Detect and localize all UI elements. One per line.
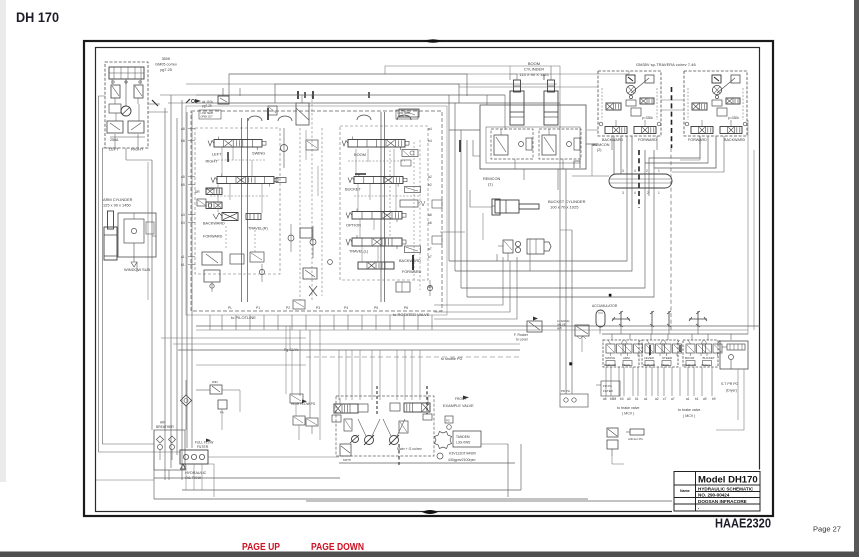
wire pump riser dark	[376, 386, 378, 414]
wire bus 463	[339, 462, 515, 464]
wire right loop	[507, 444, 509, 497]
svg-text:(1): (1)	[488, 182, 493, 187]
wire pa drop	[221, 409, 223, 430]
svg-text:PAGE DOWN: PAGE DOWN	[311, 542, 364, 553]
MCV right sym a	[401, 160, 411, 166]
wire boom box bottom1	[523, 169, 525, 180]
wire motor right drop2	[672, 136, 716, 168]
MCV right row4b	[405, 246, 421, 253]
svg-text:P2: P2	[286, 306, 290, 310]
RCV box 3 (boom/bucket)	[683, 340, 718, 367]
wire pilot to oval	[572, 175, 609, 177]
solenoid valve	[607, 428, 618, 437]
svg-text:PL: PL	[228, 306, 232, 310]
MCV dark tick 4	[459, 140, 461, 152]
svg-text:430gpm/2100rpm: 430gpm/2100rpm	[448, 458, 476, 462]
svg-text:BACKWARD: BACKWARD	[399, 259, 421, 263]
svg-text:P1: P1	[256, 306, 260, 310]
svg-text:REMCON: REMCON	[684, 363, 696, 367]
svg-text:KR75: KR75	[343, 458, 351, 462]
MCV row stubs right2	[357, 184, 359, 211]
svg-text:1: 1	[658, 169, 660, 173]
junction dot 1	[570, 363, 573, 366]
wire oval up 6	[653, 150, 655, 168]
wire boom label line	[586, 143, 596, 145]
wire boom cyl 2	[473, 140, 480, 156]
svg-text:PEDAL: PEDAL	[661, 363, 670, 367]
wire top bus 2	[275, 84, 459, 103]
svg-text:REMCON: REMCON	[643, 363, 655, 367]
svg-text:1: 1	[658, 191, 660, 195]
svg-text:250A: 250A	[110, 138, 119, 142]
svg-text:Name: Name	[680, 489, 690, 493]
port cross 1	[620, 311, 622, 327]
wire bus 344	[173, 343, 520, 345]
wire arm down	[136, 262, 138, 272]
svg-text:b4: b4	[428, 139, 432, 143]
bottom dark bar	[0, 552, 859, 557]
svg-text:to brake valve: to brake valve	[678, 408, 700, 412]
air breather group	[154, 430, 185, 470]
wire swivel corner 2	[434, 261, 510, 312]
wire rcv v3	[571, 230, 573, 394]
svg-text:BACKWARD: BACKWARD	[203, 222, 225, 226]
main pump 2	[390, 436, 399, 445]
svg-text:SWING: SWING	[252, 151, 265, 156]
last guard valve	[630, 429, 644, 435]
MCV center dash v1	[299, 128, 301, 300]
svg-text:a1: a1	[181, 255, 185, 259]
wire bus 334	[602, 333, 748, 335]
wire tank to pump	[208, 456, 339, 458]
wire bus 480	[154, 477, 340, 479]
wire bus 490	[182, 489, 521, 491]
wire oval up 5	[644, 150, 646, 168]
boom box notch	[574, 161, 580, 168]
svg-text:c7: c7	[663, 397, 667, 401]
wire pump risers	[338, 350, 340, 400]
turning joint oval	[609, 174, 672, 188]
wire left bus 5	[181, 100, 183, 480]
MCV right edge sym	[432, 200, 442, 208]
MCV outer boundary	[186, 106, 447, 315]
RCV box 1 (swing/arm)	[603, 340, 639, 367]
wire top bus 5	[239, 88, 241, 96]
svg-text:a7: a7	[671, 397, 675, 401]
wire rcv h1	[560, 229, 572, 231]
wire boom cyl 1	[449, 129, 480, 131]
wire heavy dash lower	[638, 150, 640, 208]
svg-text:WIN: WIN	[212, 380, 218, 384]
wire right motor L2	[645, 136, 708, 163]
kr valve	[340, 444, 351, 456]
wire right motor L4	[672, 136, 724, 172]
wire riser 510	[509, 74, 511, 80]
wire rcv v2	[565, 169, 567, 394]
wire mid v4	[289, 326, 291, 350]
svg-text:a1: a1	[644, 397, 648, 401]
MCV left row2 ext	[276, 178, 286, 183]
wire top dark ticks	[297, 91, 299, 99]
MCV left lower stub	[254, 230, 256, 252]
wire right loop2	[520, 444, 522, 490]
wire diamond up	[185, 380, 187, 395]
right edge dark strip	[854, 0, 859, 557]
title block backing	[672, 470, 762, 513]
svg-text:(Dryer): (Dryer)	[726, 389, 737, 393]
wire riser 544	[543, 74, 545, 80]
svg-text:LEVER: LEVER	[644, 356, 655, 360]
svg-text:b1: b1	[181, 263, 185, 267]
MCV right col sym5	[396, 282, 410, 292]
pump regulator right	[404, 403, 430, 412]
MCV bottom port wires	[209, 315, 211, 330]
pump left risers	[291, 350, 293, 394]
wire riser 487	[486, 95, 488, 105]
accumulator	[596, 310, 605, 327]
svg-text:FORWARD: FORWARD	[638, 138, 657, 142]
MCV right lower spool	[358, 262, 394, 269]
wire breather drop	[168, 470, 170, 480]
wire left bus 6b	[191, 112, 193, 448]
wire arm conn	[152, 235, 156, 237]
wire bucket link	[470, 190, 492, 207]
left edge light strip	[0, 0, 6, 482]
svg-text:P3: P3	[316, 306, 320, 310]
wire motor feed 3	[587, 129, 598, 131]
main pump outline	[336, 396, 434, 456]
svg-text:FILTER: FILTER	[603, 389, 613, 393]
MCV center sym3	[293, 300, 305, 309]
wire motor drop a	[611, 136, 613, 150]
svg-text:2: 2	[646, 169, 648, 173]
svg-text:b1: b1	[695, 397, 699, 401]
svg-text:REMCON: REMCON	[604, 363, 616, 367]
svg-text:115 X 90 X 1125: 115 X 90 X 1125	[519, 72, 549, 77]
wire motor feed 1	[467, 71, 629, 74]
travel motor right	[684, 71, 747, 136]
wire heavy dash seg2	[670, 148, 672, 330]
MCV right col sym b	[400, 200, 418, 207]
junction dot 2	[609, 294, 611, 296]
svg-text:BUCKET: BUCKET	[703, 356, 715, 360]
wire left bus 2	[164, 108, 166, 480]
svg-text:FORWARD: FORWARD	[203, 235, 223, 239]
wire rcv v1	[559, 169, 561, 394]
wire bottom right v	[716, 369, 744, 430]
svg-text:Main + G co/rev: Main + G co/rev	[397, 447, 422, 451]
loading valve box	[575, 325, 589, 336]
check valve diamond	[181, 395, 192, 406]
wire oval up 1	[613, 136, 615, 174]
svg-text:3: 3	[622, 191, 624, 195]
title block	[674, 472, 760, 512]
svg-text:BACKWARD: BACKWARD	[724, 138, 746, 142]
svg-text:ARM CYLINDER: ARM CYLINDER	[103, 197, 133, 202]
svg-text:FORWARD: FORWARD	[688, 138, 707, 142]
wire left bus 3	[170, 95, 172, 468]
wire right edge v	[747, 120, 749, 334]
MCV right row1 pilot dash	[348, 160, 405, 162]
MCV right row1 spool	[348, 140, 405, 148]
svg-text:a3: a3	[627, 397, 631, 401]
svg-text:Model DH170: Model DH170	[698, 475, 758, 486]
svg-text:OPEN CKT: OPEN CKT	[201, 116, 214, 119]
wire mcv right v2	[454, 103, 456, 271]
pa box	[218, 400, 227, 409]
svg-text:b5: b5	[181, 183, 185, 187]
MCV gallery pair right	[380, 112, 382, 302]
wire bus 330	[196, 329, 748, 331]
svg-text:pg5: pg5	[557, 326, 562, 330]
top squiggle	[424, 39, 442, 43]
wire top bus 6	[385, 66, 560, 103]
wire swivel drop2	[529, 254, 531, 271]
svg-text:a8: a8	[181, 127, 185, 131]
wire top bus 2b	[186, 83, 275, 85]
svg-text:TRAVEL(L): TRAVEL(L)	[349, 250, 369, 254]
wire rcv link	[587, 144, 592, 176]
swing port mark	[195, 99, 201, 103]
wire rcv bus riser	[620, 327, 622, 334]
svg-text:EXAMPLE VALVE: EXAMPLE VALVE	[443, 404, 474, 408]
svg-text:a9: a9	[703, 397, 707, 401]
wire corner 1	[449, 196, 627, 261]
svg-text:DOOSAN INFRACORE: DOOSAN INFRACORE	[698, 499, 747, 504]
svg-text:p=330k: p=330k	[642, 116, 653, 120]
svg-text:BUCKET CYLINDER: BUCKET CYLINDER	[548, 199, 586, 204]
svg-text:b5M: b5M	[610, 397, 617, 401]
svg-text:b1: b1	[635, 397, 639, 401]
wire corner 3	[461, 196, 645, 288]
MCV top aux box	[296, 103, 309, 125]
MCV left row2 spool	[217, 177, 274, 184]
wire motor feed 2	[459, 86, 598, 88]
wire left top h2	[168, 102, 196, 104]
svg-text:F. Rocker: F. Rocker	[514, 333, 529, 337]
svg-text:DH 170: DH 170	[16, 9, 59, 25]
MCV right bottom circle	[427, 285, 432, 290]
svg-text:GM35V sp-TRAVERA co/rev 7-46: GM35V sp-TRAVERA co/rev 7-46	[636, 62, 697, 67]
svg-text:OPTION: OPTION	[346, 223, 361, 228]
svg-text:P6: P6	[404, 306, 408, 310]
wire right motor L3	[654, 136, 716, 168]
svg-text:2: 2	[647, 191, 649, 195]
wire win link	[196, 389, 210, 391]
MCV top small box2	[268, 106, 277, 115]
svg-text:RIGHT: RIGHT	[206, 159, 219, 164]
svg-text:a6: a6	[428, 213, 432, 217]
svg-text:FULL FLOW: FULL FLOW	[195, 441, 214, 445]
high flow box	[306, 418, 318, 426]
svg-text:PEDAL: PEDAL	[702, 363, 711, 367]
svg-text:4: 4	[634, 169, 636, 173]
wire motor drop b	[656, 136, 658, 150]
svg-text:to shuttle PG: to shuttle PG	[441, 357, 462, 361]
wire top bus 3	[196, 94, 505, 96]
wire swing conn2	[148, 111, 168, 113]
rcv dark tick1	[649, 345, 651, 355]
MCV left col sym1	[206, 188, 222, 195]
svg-text:a5: a5	[603, 397, 607, 401]
boom holding valve box	[480, 105, 586, 169]
wire sol drop	[612, 456, 624, 464]
svg-text:4: 4	[634, 191, 636, 195]
svg-text:HYDRAULIC SCHEMATIC: HYDRAULIC SCHEMATIC	[698, 487, 754, 492]
RCV right block	[720, 341, 748, 369]
wire bus 497	[154, 498, 588, 500]
svg-text:b3: b3	[181, 221, 185, 225]
MCV bank arcs	[248, 116, 262, 121]
bottom squiggle	[422, 510, 438, 514]
MCV row stubs left2	[217, 184, 219, 212]
MCV dashed boundary	[191, 111, 442, 311]
svg-text:P5: P5	[374, 306, 378, 310]
wire left top h1	[160, 94, 196, 96]
svg-text:LEFT: LEFT	[212, 152, 222, 157]
svg-text:a4: a4	[428, 127, 432, 131]
svg-text:BOOM: BOOM	[528, 61, 540, 66]
wire corner small	[496, 254, 498, 261]
wire bus 501	[306, 500, 674, 502]
wire swivel corner 3	[434, 257, 517, 319]
svg-text:PG: PG	[446, 419, 450, 423]
MCV right inner verticals	[389, 150, 391, 238]
MCV boom make-up	[399, 109, 419, 117]
MCV center sym2	[288, 235, 294, 241]
wire left bus 4	[176, 118, 178, 455]
MCV row stubs right3	[359, 219, 361, 238]
swing motor group	[105, 62, 148, 148]
pump left aux valve	[290, 394, 303, 403]
svg-text:a3: a3	[181, 213, 185, 217]
MCV center relief	[310, 239, 316, 245]
svg-text:HIGH FLOW PG: HIGH FLOW PG	[291, 402, 316, 406]
win valve	[210, 385, 222, 394]
wire heavy dash 3	[426, 386, 428, 414]
gear pump small	[437, 453, 443, 459]
wire oval up 3	[626, 136, 628, 168]
wire bottom left entry	[96, 479, 154, 481]
svg-text:a9: a9	[428, 285, 432, 289]
wire bus 350	[178, 349, 520, 351]
svg-text:to Level: to Level	[516, 338, 528, 342]
wire cross bus risers	[651, 327, 653, 334]
wire motor mid2	[661, 109, 684, 111]
svg-text:P4: P4	[344, 306, 348, 310]
MCV dark tick 1	[412, 255, 414, 270]
svg-text:CYLINDER: CYLINDER	[524, 67, 544, 72]
MCV gallery pair left	[241, 118, 243, 302]
swivel joint	[503, 240, 513, 253]
MCV top left labeled box	[199, 110, 221, 119]
boom holding valve 2	[539, 129, 581, 159]
outer schematic frame	[84, 41, 773, 516]
svg-text:to PILOTLINE: to PILOTLINE	[231, 315, 256, 320]
svg-text:GM05 co/rev: GM05 co/rev	[155, 63, 177, 67]
MCV row stubs right1	[355, 149, 357, 176]
MCV left bank border	[195, 128, 280, 274]
wire rcv box risers	[611, 334, 613, 340]
MCV left foot valve	[204, 270, 220, 282]
wire corner 4	[467, 196, 654, 297]
svg-text:BACKWARD: BACKWARD	[602, 138, 624, 142]
MCV left row3 spool	[222, 213, 238, 221]
wire bus 357	[306, 356, 520, 358]
wire left bus 6	[186, 112, 188, 448]
MCV right row3 spool	[352, 212, 402, 220]
MCV dark tick 2	[267, 108, 269, 120]
MCV left row3b	[246, 214, 261, 220]
svg-text:K3V112DT/HN9V: K3V112DT/HN9V	[449, 452, 477, 456]
MCV center drain valve	[303, 268, 317, 279]
svg-text:125 x 90 x 1450: 125 x 90 x 1450	[103, 203, 132, 208]
travel motor left	[598, 71, 661, 136]
svg-text:ACCUMULATOR: ACCUMULATOR	[592, 304, 618, 308]
MCV right row4 spool	[352, 238, 402, 246]
MCV center stub	[305, 130, 307, 160]
MCV left lower circle	[259, 269, 264, 274]
port cross 4	[697, 311, 699, 327]
rcv dark tick2	[679, 345, 681, 352]
f rocker valve	[527, 321, 542, 332]
wire bottom right v2	[737, 369, 739, 420]
MCV right bank border	[340, 126, 428, 280]
inner schematic frame	[96, 48, 760, 512]
boom cylinder 2	[548, 80, 555, 92]
MCV right row2 pilot dash	[354, 195, 420, 197]
MCV row stubs right4	[361, 246, 363, 262]
svg-text:p=330k: p=330k	[728, 116, 739, 120]
wire right motor L1	[649, 136, 700, 168]
wire oval up 2	[620, 136, 622, 174]
MCV center sym1	[306, 140, 318, 150]
tandem box	[453, 431, 481, 447]
pg filter block	[560, 394, 588, 407]
svg-text:b3: b3	[620, 397, 624, 401]
wire accu riser	[599, 327, 601, 334]
MCV center check	[281, 145, 288, 152]
MCV center dash v3	[321, 128, 323, 296]
svg-text:3: 3	[622, 169, 624, 173]
wire bus 338	[161, 337, 306, 339]
pg box	[445, 416, 453, 423]
svg-text:SWING: SWING	[605, 356, 616, 360]
svg-text:to brake valve: to brake valve	[617, 406, 639, 410]
wire swivel corner 1	[434, 257, 503, 305]
svg-text:L3G-0W5: L3G-0W5	[456, 441, 470, 445]
wire boom riser	[510, 73, 517, 75]
svg-text:ARM: ARM	[623, 356, 630, 360]
wire swing conn1	[148, 103, 160, 105]
svg-text:a7: a7	[428, 247, 432, 251]
svg-text:FILTER: FILTER	[197, 445, 209, 449]
wire diamond drop	[185, 406, 187, 430]
MCV left row3 spring	[213, 213, 222, 219]
boom box inner line	[486, 127, 580, 163]
svg-text:100 x 70 x 1025: 100 x 70 x 1025	[550, 205, 579, 210]
svg-text:b2: b2	[428, 183, 432, 187]
wire mcv right v1	[448, 95, 450, 261]
MCV relief valve top	[218, 96, 229, 104]
hydraulic oil tank	[180, 450, 208, 464]
wire top bus 4	[196, 102, 560, 104]
wire heavy dash 2	[398, 444, 400, 465]
wire swivel head line	[440, 231, 465, 233]
wire right edge v2	[753, 150, 755, 330]
MCV center circle2	[328, 260, 333, 265]
svg-text:Page 27: Page 27	[813, 525, 841, 534]
